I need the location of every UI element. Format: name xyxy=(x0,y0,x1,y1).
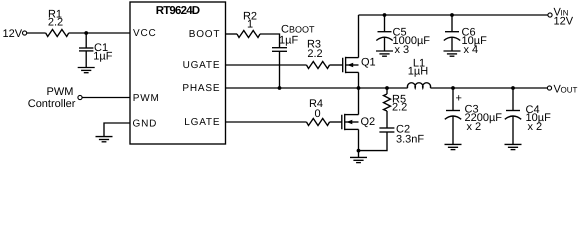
ground (C6) xyxy=(444,51,461,56)
svg-text:OUT: OUT xyxy=(561,85,578,94)
pin PWM xyxy=(133,93,160,104)
wire C5 to ground xyxy=(384,37,386,51)
svg-text:0: 0 xyxy=(314,108,320,120)
wire PWM to box xyxy=(82,97,130,99)
ground (C1) xyxy=(78,68,95,73)
capacitor CBOOT xyxy=(272,24,315,52)
wire C5 stub xyxy=(384,15,386,32)
svg-text:1µF: 1µF xyxy=(279,35,298,47)
transistor Q2 xyxy=(342,114,375,130)
wire Q2 source to ground xyxy=(358,129,360,157)
wire R5 to C2 xyxy=(386,111,388,128)
svg-text:x 2: x 2 xyxy=(467,121,482,133)
node junction Q1/Q2 PHASE xyxy=(357,86,361,90)
wire 12V to R1 xyxy=(27,32,46,34)
transistor Q1 xyxy=(343,57,376,74)
pin GND xyxy=(133,118,158,129)
wire R2 to CBOOT xyxy=(260,34,280,48)
node junction R5 xyxy=(385,86,389,90)
wire R4 to Q2 gate xyxy=(330,121,342,123)
svg-text:PWM: PWM xyxy=(47,86,74,98)
svg-text:Controller: Controller xyxy=(28,98,76,110)
wire junction down to C1 xyxy=(85,33,87,48)
wire C3 stub xyxy=(452,88,454,111)
svg-text:RT9624D: RT9624D xyxy=(156,5,200,17)
node VIN terminal xyxy=(548,7,574,28)
node junction C4 xyxy=(511,86,515,90)
svg-text:BOOT: BOOT xyxy=(289,25,315,35)
wire C2 to Q2 source node xyxy=(359,132,388,151)
ground (C4) xyxy=(505,144,522,149)
resistor R4 xyxy=(307,98,330,126)
svg-text:VCC: VCC xyxy=(133,28,157,39)
wire R1 to VCC pin xyxy=(69,32,130,34)
pin BOOT xyxy=(189,29,221,40)
ground (Q2/C2) xyxy=(350,157,367,162)
svg-text:LGATE: LGATE xyxy=(184,117,220,128)
wire C3 to ground xyxy=(452,116,454,144)
svg-text:2.2: 2.2 xyxy=(307,48,322,60)
wire CBOOT to PHASE node xyxy=(279,51,281,88)
wire C4 to ground xyxy=(512,116,514,144)
svg-text:2.2: 2.2 xyxy=(48,17,63,29)
wire VIN rail xyxy=(359,14,548,16)
capacitor C6 xyxy=(444,27,487,57)
wire C6 to ground xyxy=(451,37,453,51)
wire Q1 drain to VIN rail xyxy=(358,15,360,58)
wire PHASE pin to L1 xyxy=(226,87,408,89)
wire C6 stub xyxy=(451,15,453,32)
svg-text:x 2: x 2 xyxy=(528,121,543,133)
svg-text:BOOT: BOOT xyxy=(189,29,221,40)
wire GND pin to ground xyxy=(104,123,130,137)
svg-text:3.3nF: 3.3nF xyxy=(396,134,424,146)
resistor R2 xyxy=(237,11,260,38)
node junction C1 xyxy=(84,31,88,35)
ground (C3) xyxy=(445,144,462,149)
resistor R5 xyxy=(384,94,408,114)
capacitor C3 xyxy=(445,93,503,133)
pin UGATE xyxy=(183,60,221,71)
wire C1 to ground xyxy=(85,51,87,68)
node VOUT terminal xyxy=(547,83,577,95)
capacitor C2 xyxy=(379,124,424,146)
capacitor C5 xyxy=(376,27,430,57)
pin LGATE xyxy=(184,117,220,128)
wire Q2 drain to PHASE xyxy=(358,88,360,115)
inductor L1 xyxy=(407,58,430,89)
node 12V input terminal xyxy=(3,28,27,40)
ground (C5) xyxy=(376,51,393,56)
svg-text:12V: 12V xyxy=(3,28,23,40)
svg-text:UGATE: UGATE xyxy=(183,60,221,71)
ground (GND pin) xyxy=(96,137,113,142)
wire BOOT pin to R2 xyxy=(226,33,238,35)
svg-text:x 4: x 4 xyxy=(464,44,479,56)
wire UGATE pin to R3 xyxy=(226,64,307,66)
svg-text:1µF: 1µF xyxy=(93,51,112,63)
node junction CBOOT-PHASE xyxy=(278,86,282,90)
svg-text:GND: GND xyxy=(133,118,158,129)
svg-text:Q2: Q2 xyxy=(361,116,376,128)
wire R5 stub from PHASE xyxy=(386,88,388,94)
svg-text:12V: 12V xyxy=(554,16,574,28)
node junction C6 xyxy=(450,13,454,17)
wire L1 to VOUT xyxy=(430,87,547,89)
svg-text:1µH: 1µH xyxy=(408,66,428,78)
node PWM controller input xyxy=(28,86,82,110)
wire Q1 source to PHASE xyxy=(358,72,360,88)
resistor R3 xyxy=(307,39,330,69)
wire R3 to Q1 gate xyxy=(330,64,343,66)
svg-text:x 3: x 3 xyxy=(395,44,410,56)
node junction Q2 source / C2 xyxy=(357,149,361,153)
node junction C5 xyxy=(383,13,387,17)
svg-text:PHASE: PHASE xyxy=(182,83,220,94)
capacitor C1 xyxy=(79,42,113,63)
wire C4 stub xyxy=(512,88,514,111)
wire LGATE pin to R4 xyxy=(226,121,307,123)
svg-text:Q1: Q1 xyxy=(361,57,376,69)
svg-text:+: + xyxy=(456,93,462,105)
svg-text:PWM: PWM xyxy=(133,93,160,104)
capacitor C4 xyxy=(505,104,551,133)
resistor R1 xyxy=(46,9,69,37)
pin PHASE xyxy=(182,83,220,94)
op-amp U1 RT9624D driver IC box xyxy=(130,2,226,144)
pin VCC xyxy=(133,28,157,39)
node junction C3 xyxy=(451,86,455,90)
svg-text:2.2: 2.2 xyxy=(392,102,407,114)
svg-text:1: 1 xyxy=(247,19,253,31)
